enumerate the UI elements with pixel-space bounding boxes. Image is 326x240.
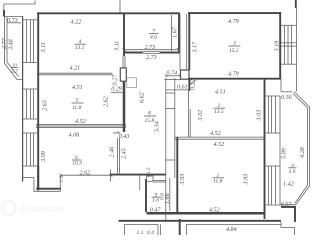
svg-text:3.9: 3.9 (288, 169, 296, 175)
svg-text:15.8: 15.8 (145, 118, 155, 124)
svg-text:3.02: 3.02 (198, 110, 204, 122)
svg-text:3.03: 3.03 (256, 110, 262, 122)
svg-text:11.8: 11.8 (72, 105, 81, 111)
svg-text:0.27: 0.27 (113, 74, 119, 86)
svg-text:4.52: 4.52 (75, 119, 86, 125)
svg-text:4.51: 4.51 (215, 90, 226, 96)
svg-text:Домклик: Домклик (20, 203, 66, 215)
svg-text:3.93: 3.93 (180, 174, 186, 186)
svg-text:11: 11 (291, 163, 295, 168)
svg-text:0.73: 0.73 (7, 18, 18, 24)
svg-text:3.48: 3.48 (8, 39, 14, 51)
svg-text:10: 10 (12, 63, 17, 68)
svg-text:3.11: 3.11 (115, 41, 121, 52)
svg-text:5.7: 5.7 (11, 69, 18, 75)
svg-text:3.17: 3.17 (193, 41, 199, 54)
svg-text:2.62: 2.62 (104, 96, 110, 107)
svg-text:5.99: 5.99 (281, 148, 287, 159)
svg-text:0.47: 0.47 (150, 207, 162, 213)
svg-text:11.8: 11.8 (213, 179, 222, 185)
svg-text:0.6: 0.6 (159, 193, 165, 200)
svg-text:3.93: 3.93 (243, 174, 249, 186)
svg-text:13.5: 13.5 (214, 109, 224, 115)
svg-text:4.21: 4.21 (70, 66, 81, 72)
svg-text:1.5: 1.5 (146, 167, 152, 174)
svg-text:4.84: 4.84 (226, 227, 237, 233)
svg-text:0.4: 0.4 (147, 229, 154, 235)
svg-text:4.22: 4.22 (71, 20, 82, 26)
svg-text:10.3: 10.3 (72, 160, 82, 166)
svg-text:0.56: 0.56 (281, 95, 293, 101)
svg-text:0.22: 0.22 (191, 79, 197, 90)
svg-text:2.73: 2.73 (145, 45, 156, 51)
svg-text:4.79: 4.79 (228, 19, 239, 25)
svg-text:13.1: 13.1 (75, 45, 85, 51)
svg-text:4.51: 4.51 (72, 85, 83, 91)
svg-text:1.6: 1.6 (152, 198, 159, 204)
svg-text:3.09: 3.09 (41, 151, 47, 163)
svg-text:2.73: 2.73 (146, 55, 157, 61)
svg-text:5.34: 5.34 (155, 121, 161, 132)
svg-text:4.79: 4.79 (228, 72, 239, 78)
svg-text:4.52: 4.52 (214, 142, 225, 148)
svg-text:4.52: 4.52 (210, 131, 221, 137)
svg-text:3.11: 3.11 (41, 42, 47, 53)
svg-text:0.29: 0.29 (111, 87, 122, 93)
svg-text:4: 4 (79, 38, 82, 45)
svg-text:6.62: 6.62 (140, 92, 146, 103)
svg-text:1.42: 1.42 (283, 182, 294, 188)
svg-text:0.43: 0.43 (119, 134, 130, 140)
svg-text:2.77: 2.77 (2, 37, 8, 49)
svg-text:4.08: 4.08 (69, 132, 80, 138)
svg-text:0.74: 0.74 (167, 71, 178, 77)
svg-text:1.67: 1.67 (172, 26, 178, 38)
svg-text:4.28: 4.28 (300, 147, 306, 158)
svg-text:2.63: 2.63 (43, 100, 49, 111)
svg-text:0.61: 0.61 (177, 85, 188, 91)
svg-text:1.5: 1.5 (59, 175, 65, 182)
svg-text:3.19: 3.19 (274, 41, 280, 53)
svg-text:4.52: 4.52 (209, 207, 220, 213)
svg-text:1.1: 1.1 (137, 230, 144, 235)
svg-text:2.46: 2.46 (110, 146, 116, 158)
svg-text:4.6: 4.6 (150, 34, 157, 41)
svg-text:1.66: 1.66 (165, 192, 171, 204)
svg-text:2.45: 2.45 (122, 148, 128, 159)
svg-text:15.2: 15.2 (229, 48, 239, 54)
